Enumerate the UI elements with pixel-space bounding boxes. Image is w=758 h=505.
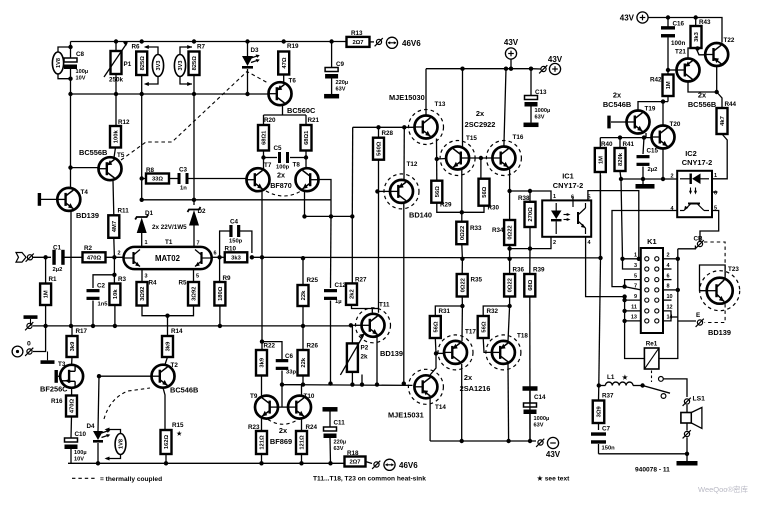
svg-text:1V8: 1V8 (119, 439, 125, 449)
wire tail to R14 crossing ground rail (167, 316, 169, 336)
wire R22 to T9 collector (261, 376, 263, 396)
svg-text:1n5: 1n5 (98, 302, 109, 308)
svg-text:R17: R17 (76, 328, 88, 335)
transistor T3 BF256C JFET (60, 365, 83, 388)
junction C13 (529, 67, 533, 71)
svg-text:P1: P1 (124, 61, 132, 68)
wire to E plug (678, 320, 696, 322)
wire bias rail (282, 384, 413, 387)
svg-text:825Ω: 825Ω (140, 56, 146, 71)
wire T15 collector (462, 69, 464, 147)
svg-text:R3: R3 (118, 276, 127, 283)
svg-text:R21: R21 (308, 117, 320, 124)
junction C8 column / 1V8 top (68, 45, 72, 49)
junction T7emitter-col crossing R10 node (260, 255, 264, 259)
junction C15 bottom chassis (641, 177, 645, 181)
svg-text:4k7: 4k7 (720, 116, 726, 126)
svg-text:43V: 43V (548, 55, 563, 64)
junction C9 on rail (329, 39, 333, 43)
wire T11 base lead (351, 324, 362, 326)
svg-text:220µ: 220µ (336, 80, 349, 86)
svg-text:T11: T11 (379, 302, 390, 309)
wire zener cathode rail to T8 base (142, 199, 331, 201)
inductor L1 (599, 374, 643, 386)
junction tail node (165, 314, 169, 318)
wire K1 pin2 lead (663, 258, 678, 260)
resistor R6 825R (132, 44, 148, 76)
svg-text:3V3: 3V3 (156, 61, 162, 71)
svg-text:63V: 63V (336, 87, 346, 93)
transistor T9 BF869 (255, 396, 278, 419)
junction T21 emitter R43 T22 base (695, 46, 699, 50)
resistor R28 560R (373, 130, 394, 160)
ground plug 2 (25, 322, 33, 330)
svg-text:★: ★ (177, 431, 183, 438)
transistor T12 BD140 (384, 174, 419, 209)
svg-text:R1: R1 (49, 276, 58, 283)
supply terminal -43V (536, 437, 561, 459)
dashed link CB T23 E (704, 242, 725, 323)
wire IC2 pin5 to CB (700, 211, 719, 243)
wire C10 to negative rail (70, 449, 72, 463)
resistor R4 3R92 (137, 280, 158, 306)
wire P1 to R12 (115, 74, 117, 126)
optocoupler IC1 CNY17-2 (542, 172, 591, 247)
svg-text:R43: R43 (699, 19, 711, 26)
wire K1 pin10 stub (663, 299, 672, 301)
transistor T23 BD139 thermal sensor (700, 266, 740, 337)
wire to T18 emitter (508, 306, 510, 341)
resistor R21 (301, 117, 320, 151)
svg-text:R22: R22 (264, 343, 276, 350)
capacitor C10 100u (65, 417, 87, 463)
wire -43V rail (430, 440, 536, 442)
svg-text:R12: R12 (118, 119, 130, 126)
wire T14 to -43V rail (429, 398, 431, 441)
connector K1 (631, 237, 674, 333)
wire T8 base lead (319, 180, 332, 217)
svg-text:2µ2: 2µ2 (648, 167, 658, 173)
resistor R15 162R (161, 388, 185, 454)
wire K1 pin9 lead (625, 299, 641, 301)
junction T20 collector (661, 99, 665, 103)
svg-text:2x: 2x (613, 91, 622, 100)
capacitor C11 220u electrolytic with bus bar (323, 407, 347, 463)
wire sense line to IC2 pin2 (621, 178, 677, 180)
svg-text:2: 2 (667, 253, 670, 259)
wire T13 base rail drop column (351, 127, 353, 216)
svg-text:33p: 33p (286, 370, 296, 376)
junction bias rail left end (280, 382, 284, 386)
wire CB E vertical (677, 249, 679, 321)
svg-text:2SC2922: 2SC2922 (465, 120, 496, 129)
resistor R8 33R (146, 167, 169, 184)
svg-text:E: E (696, 312, 700, 319)
wire R29 to T15 emitter node (437, 203, 462, 213)
wire T7 emitter long column (261, 191, 263, 350)
wire output sense riser to output rail (600, 175, 602, 258)
svg-text:R6: R6 (132, 44, 141, 51)
resistor R36 0R22 (504, 259, 524, 297)
svg-text:T20: T20 (670, 121, 681, 128)
junction R19 top on rail (282, 39, 286, 43)
svg-text:C10: C10 (75, 431, 87, 438)
svg-text:11: 11 (631, 305, 637, 311)
wire T15 base from tap (437, 158, 446, 161)
wire T4 emitter down to ground rail (70, 211, 72, 326)
resistor R40 1M (595, 138, 613, 172)
svg-text:R8: R8 (146, 167, 155, 174)
svg-text:56Ω: 56Ω (433, 321, 439, 332)
svg-text:2x: 2x (277, 171, 285, 180)
wire R33 to output rail (461, 244, 464, 259)
svg-text:180Ω: 180Ω (218, 286, 224, 301)
svg-text:63V: 63V (535, 115, 545, 121)
junction P2 bottom (350, 382, 354, 386)
wire R19 to T6 emitter (283, 75, 285, 84)
junction R6 top on rail (140, 39, 144, 43)
junction R24 (299, 461, 303, 465)
svg-text:150p: 150p (229, 239, 243, 245)
junction R38 wire tap (507, 189, 511, 193)
svg-text:7: 7 (197, 241, 200, 247)
wire R34 to output rail (509, 245, 511, 259)
svg-text:R30: R30 (488, 205, 500, 212)
wire join to T11 collector (372, 308, 378, 310)
relay Re1 (644, 341, 659, 370)
svg-text:MJE15030: MJE15030 (389, 93, 425, 102)
wire top supply rail 46V6 left section (71, 41, 348, 43)
svg-text:R13: R13 (351, 30, 363, 37)
svg-text:3k3: 3k3 (231, 256, 241, 262)
junction pin9 (622, 298, 626, 302)
resistor R44 4k7 (717, 92, 737, 134)
svg-text:C15: C15 (647, 148, 659, 155)
wire K1 pin8 lead (663, 289, 678, 291)
svg-text:100n: 100n (671, 40, 686, 47)
junction pin8 (676, 288, 680, 292)
wire down to D4 (98, 376, 99, 431)
potentiometer P2 2k (340, 325, 368, 384)
junction C2 bottom (91, 324, 95, 328)
svg-text:T9: T9 (250, 393, 258, 400)
wire signal ground rail (33, 325, 351, 327)
wire R13 to terminal (370, 41, 375, 43)
wire IC2 pin4 to K1 pins 5 7 (612, 211, 677, 287)
svg-text:14: 14 (667, 315, 674, 321)
svg-text:0Ω22: 0Ω22 (508, 278, 514, 292)
svg-text:0Ω22: 0Ω22 (460, 226, 466, 240)
svg-text:K1: K1 (647, 237, 656, 246)
svg-text:3: 3 (145, 274, 148, 280)
junction T18 (506, 439, 510, 443)
capacitor C13 1000u (524, 69, 551, 127)
junction C6 tap (260, 339, 264, 343)
wire R24 to negative rail (301, 454, 303, 463)
wire R42 bottom (667, 96, 669, 102)
junction T17 emitter node (460, 304, 464, 308)
transistor T19 BC546B (627, 111, 650, 134)
resistor R19 47R (278, 43, 299, 75)
svg-text:68Ω1: 68Ω1 (262, 130, 268, 145)
diode D3 LED (242, 42, 260, 69)
junction R43 (694, 15, 698, 19)
wire K1 pins 12 14 link (663, 311, 671, 321)
svg-text:BF256C: BF256C (40, 385, 68, 394)
svg-text:100µ: 100µ (74, 450, 87, 456)
potentiometer P1 250k (104, 41, 132, 83)
resistor R10 3k3 (225, 246, 248, 263)
wire zobel return to speaker ground (599, 453, 688, 455)
junction T17 (460, 439, 464, 443)
junction R44 top (715, 90, 719, 94)
wire R27 column (351, 216, 353, 283)
svg-text:825Ω: 825Ω (192, 56, 198, 71)
svg-text:3k9: 3k9 (70, 341, 76, 351)
wire C8 bottom lead (70, 69, 72, 94)
junction R27 column (350, 214, 354, 218)
svg-text:LS1: LS1 (693, 396, 706, 403)
svg-text:R4: R4 (149, 280, 158, 287)
svg-text:T19: T19 (645, 106, 656, 113)
resistor R26 22k (298, 326, 319, 376)
wire MAT02 pin6 out (212, 256, 224, 258)
svg-text:10: 10 (667, 294, 673, 300)
svg-text:121Ω: 121Ω (260, 435, 266, 450)
svg-text:2: 2 (671, 174, 674, 180)
junction R25 top (301, 256, 305, 260)
svg-text:R27: R27 (355, 277, 367, 284)
input connector plug (16, 253, 34, 263)
junction C12 top (329, 214, 333, 218)
resistor R43 3k3 (691, 18, 712, 49)
wire R7 column down to D2 (193, 75, 195, 205)
wire pins 9 11 13 to relay (624, 297, 626, 348)
junction C14 R39 (528, 439, 532, 443)
svg-text:R25: R25 (307, 277, 319, 284)
svg-text:T17: T17 (465, 329, 476, 336)
svg-text:T12: T12 (407, 161, 418, 168)
svg-text:2: 2 (553, 240, 556, 246)
wire R14 to T2 collector (165, 357, 168, 365)
wire R6 column down to D1 (141, 75, 143, 200)
junction output to L1 and sense (598, 256, 602, 260)
svg-text:2: 2 (118, 251, 121, 257)
svg-text:R35: R35 (471, 277, 483, 284)
junction IC1 pin4 wire (622, 294, 626, 298)
wire T20 emitter down (662, 149, 664, 180)
junction D3 bottom on T6 base rail (245, 92, 249, 96)
wire R41 bottom (620, 171, 621, 179)
wire R20 top lead (263, 115, 265, 125)
svg-text:R40: R40 (601, 141, 613, 148)
svg-text:T23: T23 (728, 266, 739, 273)
output terminal +46V6 (375, 37, 422, 48)
svg-text:22k: 22k (301, 357, 307, 367)
wire T19 emitter down (645, 133, 647, 138)
svg-text:220µ: 220µ (334, 440, 347, 446)
wire D4 to negative rail (97, 443, 99, 463)
svg-text:3Ω92: 3Ω92 (192, 287, 198, 301)
resistor R24 121R (296, 419, 318, 454)
svg-text:BF869: BF869 (270, 437, 292, 446)
wire K1 pin4 stub (663, 268, 672, 270)
junction T15 collector (460, 67, 464, 71)
svg-text:43V: 43V (546, 450, 561, 459)
svg-text:IC1: IC1 (562, 172, 574, 181)
svg-text:63V: 63V (334, 446, 344, 452)
svg-text:R39: R39 (533, 267, 545, 274)
svg-text:100µ: 100µ (76, 69, 89, 75)
wire R4 R5 join (142, 306, 194, 316)
wire R20 to T7 collector (263, 151, 265, 170)
svg-text:CNY17-2: CNY17-2 (682, 158, 712, 167)
wire T22 emitter down (716, 66, 718, 92)
svg-text:R29: R29 (440, 202, 452, 209)
transistor T16 2SC2922 (486, 141, 521, 176)
dashed relay actuator link (651, 371, 653, 383)
svg-text:T1: T1 (165, 239, 173, 246)
junction R1 bottom and 0 riser (43, 324, 47, 328)
svg-text:0Ω22: 0Ω22 (508, 225, 514, 239)
resistor R31 56R (430, 308, 451, 338)
svg-text:T18: T18 (517, 333, 528, 340)
resistor R27 2k2 (346, 277, 367, 305)
transistor T8 BF870 (296, 168, 319, 191)
wire R1 to ground rail (45, 305, 47, 326)
resistor R20 (258, 117, 276, 151)
svg-text:T21: T21 (675, 49, 686, 56)
svg-text:P2: P2 (361, 345, 369, 352)
junction T17 base node (434, 351, 438, 355)
junction R37 tap (597, 383, 601, 387)
resistor R3 10k (109, 257, 126, 305)
wire mirror rail (305, 215, 353, 217)
wire T12 collector long down to bias rail (403, 203, 405, 384)
svg-text:1M: 1M (598, 156, 604, 164)
svg-text:270Ω: 270Ω (528, 207, 534, 222)
wire R17 to T3 drain (71, 357, 73, 365)
wire T13 base rail (353, 126, 414, 128)
junction R6 column on T6 base rail (140, 92, 144, 96)
resistor R22 3k9 (256, 343, 276, 376)
wire relay coil right (659, 321, 678, 359)
wire T20 collector riser (662, 102, 664, 126)
svg-text:3k9: 3k9 (166, 341, 172, 351)
loudspeaker LS1 (681, 396, 705, 454)
wire R25 to ground rail (302, 306, 304, 326)
svg-text:D1: D1 (145, 210, 154, 217)
svg-text:BD139: BD139 (708, 328, 731, 337)
junction 43V feed (509, 67, 513, 71)
svg-text:MJE15031: MJE15031 (388, 411, 424, 420)
transistor T4 BD139 (57, 188, 80, 211)
svg-text:150n: 150n (602, 446, 616, 452)
svg-text:1000µ: 1000µ (535, 108, 551, 114)
junction T12 collector on bias rail (402, 381, 406, 385)
supply terminal 43V right (531, 55, 563, 75)
svg-text:C2: C2 (97, 283, 106, 290)
svg-text:9: 9 (634, 294, 637, 300)
svg-text:1: 1 (714, 173, 717, 179)
junction pin5 net to K1 pin1 lead (637, 257, 641, 261)
wire R6col to R8 (142, 178, 146, 180)
wire T13 collector to 43V rail (425, 69, 427, 115)
wire D3 to T6 base rail (247, 69, 249, 94)
wire R27 to T11 collector (352, 305, 373, 313)
junction node pin2 (112, 255, 116, 259)
wire to ground (686, 454, 688, 461)
svg-text:BC556B: BC556B (79, 148, 107, 157)
junction C15 top and T19 emitter (642, 135, 646, 139)
svg-text:T2: T2 (171, 362, 179, 369)
junction R28 top (376, 125, 380, 129)
transistor T20 BC546B (652, 126, 675, 149)
svg-text:R19: R19 (287, 43, 299, 50)
svg-text:47Ω: 47Ω (282, 57, 288, 68)
wire R35 bottom (461, 297, 463, 307)
svg-text:33Ω: 33Ω (152, 177, 163, 183)
resistor R5 3R92 (179, 280, 200, 306)
chassis bar lower (41, 352, 55, 364)
wire to T17 emitter (461, 306, 463, 341)
terminal bar T19 base (607, 116, 627, 129)
wire R28 top (378, 127, 380, 137)
voltage label 1V8 oval lower (105, 428, 126, 461)
svg-text:R28: R28 (382, 130, 394, 137)
svg-text:2SA1216: 2SA1216 (460, 384, 491, 393)
svg-text:R37: R37 (602, 393, 614, 400)
wire to K1 pins 1 3 (621, 179, 623, 259)
svg-text:C4: C4 (230, 219, 239, 226)
svg-text:3Ω92: 3Ω92 (140, 287, 146, 301)
junction R30 tap (479, 156, 483, 160)
svg-text:R18: R18 (347, 450, 359, 457)
junction pin1 (620, 257, 624, 261)
chassis bar upper (24, 315, 38, 326)
dashed thermal coupling T5 to D3 to T6 (121, 72, 268, 161)
relay switch contact (640, 377, 670, 399)
wire to R42 (667, 70, 669, 75)
svg-text:T15: T15 (466, 135, 477, 142)
0V output terminal (12, 326, 46, 357)
svg-text:2x 22V/1W5: 2x 22V/1W5 (152, 224, 187, 231)
junction T12 emitter (402, 125, 406, 129)
svg-text:46V6: 46V6 (399, 461, 418, 470)
svg-text:1: 1 (145, 240, 148, 246)
wire negative supply rail -46V6 (68, 462, 345, 464)
junction pin7 net (622, 284, 626, 288)
resistor R33 0R22 (456, 222, 482, 245)
svg-text:2x: 2x (464, 373, 473, 382)
capacitor C2 1n5 (87, 275, 115, 327)
wire MAT02 pin5 to R5 (193, 269, 195, 282)
svg-text:T11...T18, T23 on common heat-: T11...T18, T23 on common heat-sink (313, 476, 426, 483)
wire R11 to pin2 node (113, 238, 116, 257)
svg-text:C14: C14 (534, 394, 546, 401)
junction R1 tap (43, 255, 47, 259)
svg-text:R33: R33 (470, 225, 482, 232)
svg-text:R26: R26 (307, 343, 319, 350)
svg-text:46V6: 46V6 (402, 39, 421, 48)
svg-text:C16: C16 (673, 21, 685, 28)
wire R18 to -46V6 terminal (366, 462, 373, 464)
wire R26 to bias rail (302, 376, 304, 385)
svg-text:0Ω22: 0Ω22 (460, 278, 466, 292)
junction R8 tap on R6 column (140, 176, 144, 180)
svg-text:BC546B: BC546B (603, 100, 631, 109)
svg-text:BD140: BD140 (409, 211, 432, 220)
